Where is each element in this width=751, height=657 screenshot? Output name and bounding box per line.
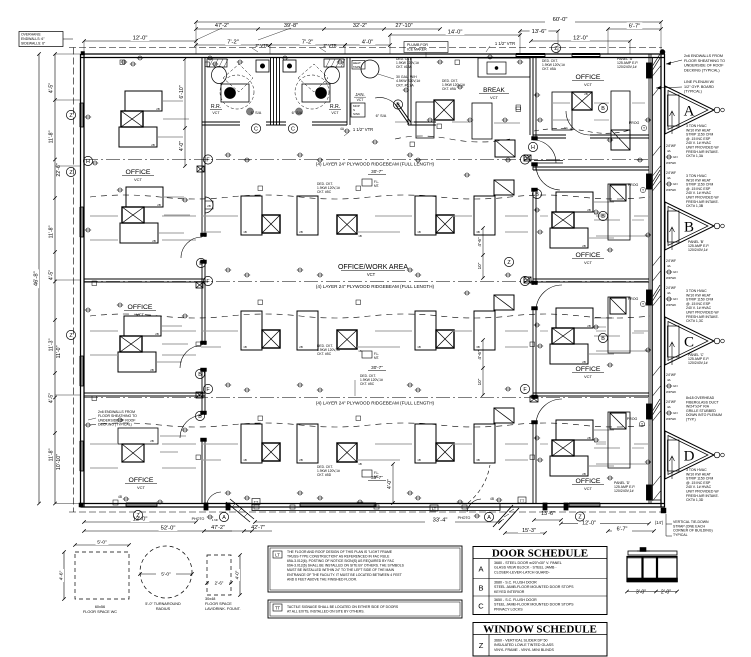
left entry door swing	[207, 492, 221, 503]
svg-text:T: T	[642, 302, 644, 306]
svg-text:AT ALL EXITS, INSTALLED ON SIT: AT ALL EXITS, INSTALLED ON SITE BY OTHER…	[287, 610, 364, 614]
wall office2-right / office3-right	[533, 278, 649, 280]
dimension tier 47'-2" 39'-8" 32'-2" 27'-10"	[196, 28, 440, 30]
svg-text:11'-8": 11'-8"	[49, 130, 55, 143]
hvac unit A triangle	[665, 86, 714, 134]
svg-text:SINK: SINK	[353, 112, 360, 116]
door tag B mid-left 1	[196, 258, 205, 267]
hvac unit D duct	[668, 440, 680, 471]
corner tie-down dots	[79, 503, 83, 507]
door jamb blocks right wall	[532, 137, 538, 141]
svg-text:WP/WK: WP/WK	[666, 188, 676, 192]
svg-text:4A: 4A	[667, 176, 671, 180]
svg-text:11'-8": 11'-8"	[49, 225, 55, 238]
interior dim 6'-10"	[184, 59, 186, 166]
svg-text:(TYP.): (TYP.)	[686, 418, 696, 422]
window tag Z left 2	[66, 167, 75, 176]
svg-text:3'-0": 3'-0"	[636, 590, 646, 596]
wc floor space dashed square	[75, 552, 129, 599]
svg-text:(TYPICAL): (TYPICAL)	[684, 90, 702, 94]
svg-text:H: H	[531, 145, 535, 151]
svg-text:5'-0": 5'-0"	[97, 540, 107, 546]
note box LT	[268, 546, 462, 592]
hvac unit C triangle	[665, 317, 714, 365]
svg-text:OFFICE: OFFICE	[129, 477, 154, 484]
right plenum wall	[648, 54, 650, 504]
svg-text:4A: 4A	[667, 378, 671, 382]
svg-text:TAPE: TAPE	[353, 65, 361, 69]
svg-text:32'-2": 32'-2"	[353, 23, 367, 29]
window left wall 2	[80, 207, 84, 237]
svg-text:A: A	[487, 515, 491, 521]
door tag B office4-right	[598, 333, 607, 342]
svg-text:52'-0": 52'-0"	[161, 526, 176, 532]
ridge junction boxes	[197, 166, 204, 172]
electrical symbols scattered	[122, 60, 126, 64]
restroom shared wet wall fixtures	[256, 60, 269, 72]
svg-text:4'-6": 4'-6"	[59, 570, 65, 580]
svg-text:24"WF: 24"WF	[666, 171, 676, 175]
hvac unit B wall hatch	[653, 170, 661, 182]
svg-text:C: C	[684, 335, 694, 351]
office-right row C desks	[556, 308, 593, 328]
svg-text:3680 - S.C. FLUSH DOOR: 3680 - S.C. FLUSH DOOR	[494, 581, 537, 585]
dimension 46'-8" left overall	[38, 54, 40, 504]
svg-text:11'-0": 11'-0"	[56, 345, 62, 358]
svg-text:4'-5": 4'-5"	[49, 270, 55, 280]
wall office1-right bottom	[533, 134, 566, 136]
workstation row D units	[241, 424, 262, 463]
svg-text:6'-7": 6'-7"	[629, 24, 641, 30]
dimension 12'-0" top left	[84, 40, 196, 42]
door arc office3-left	[180, 415, 202, 438]
svg-text:VCT: VCT	[584, 374, 593, 379]
svg-text:LT: LT	[432, 506, 437, 511]
svg-text:PROG: PROG	[628, 183, 639, 187]
svg-text:JAN.: JAN.	[355, 92, 365, 97]
office-right row B desks	[556, 192, 593, 212]
lav floor space dashed rect	[207, 555, 231, 595]
right entry ramp	[493, 505, 513, 527]
window top wall 1	[516, 53, 545, 57]
svg-text:120/240V,1#: 120/240V,1#	[617, 65, 637, 69]
svg-text:FLOOR SPACE WC: FLOOR SPACE WC	[83, 610, 117, 614]
note box TT	[268, 600, 462, 618]
hvac unit B triangle	[665, 202, 714, 250]
svg-text:CKT. #5C: CKT. #5C	[360, 382, 375, 386]
svg-text:6'-10": 6'-10"	[179, 85, 185, 98]
svg-text:47'-2": 47'-2"	[211, 525, 225, 531]
break counter with sink	[478, 58, 530, 77]
svg-text:10": 10"	[477, 378, 482, 385]
privacy screen dashed lines row C	[90, 314, 650, 318]
svg-text:24"WF: 24"WF	[666, 286, 676, 290]
svg-text:GFI: GFI	[673, 182, 678, 186]
door tag B office3-right	[598, 211, 607, 220]
svg-text:VINYL FRAME - VINYL MINI BLIND: VINYL FRAME - VINYL MINI BLINDS	[494, 648, 554, 652]
svg-text:2" VTR: 2" VTR	[255, 43, 268, 48]
door schedule table	[473, 547, 607, 615]
svg-text:LT: LT	[275, 553, 280, 558]
svg-text:CKT. #9A: CKT. #9A	[442, 87, 457, 91]
svg-text:1B: 1B	[417, 345, 421, 349]
svg-text:VCT: VCT	[490, 95, 499, 100]
wall office3-right / office4-right	[533, 392, 649, 394]
svg-text:3680 - STEEL DOOR w/20"x30" V.: 3680 - STEEL DOOR w/20"x30" V. PANEL	[494, 561, 562, 565]
corner dot top right	[660, 50, 665, 55]
svg-text:120/240V,1#: 120/240V,1#	[614, 489, 634, 493]
door tag C restroom left	[251, 124, 260, 133]
svg-text:GFI: GFI	[673, 270, 678, 274]
door tag F ridge right 3	[520, 384, 529, 393]
door tag F ridge right 2	[520, 276, 529, 285]
corridor sill office2-right	[534, 160, 563, 162]
svg-text:24"WF: 24"WF	[666, 259, 676, 263]
svg-text:4A: 4A	[667, 291, 671, 295]
door tag B janitor	[393, 100, 402, 109]
svg-text:VCT: VCT	[367, 272, 376, 277]
svg-text:12'-0": 12'-0"	[582, 521, 596, 527]
svg-text:4A: 4A	[667, 264, 671, 268]
window tag Z left 3	[66, 330, 75, 339]
door tag B mid-left 3	[195, 411, 204, 420]
svg-text:12'-0": 12'-0"	[133, 36, 148, 42]
ridgebeam centerline 3	[84, 397, 649, 399]
window elevation detail	[628, 551, 677, 555]
svg-text:CKT. #6,7A: CKT. #6,7A	[396, 83, 414, 87]
svg-text:60'-0": 60'-0"	[553, 17, 568, 23]
svg-text:1B: 1B	[358, 349, 362, 353]
svg-text:6" S/A: 6" S/A	[251, 111, 262, 115]
svg-text:WP/WK: WP/WK	[666, 390, 676, 394]
svg-text:B: B	[198, 414, 202, 420]
ridgebeam centerline 2	[84, 281, 649, 283]
svg-text:B: B	[396, 102, 400, 108]
svg-text:4B: 4B	[490, 497, 494, 501]
entry landing strip	[252, 504, 500, 511]
window bottom wall 1	[300, 503, 376, 507]
svg-text:3B: 3B	[476, 345, 480, 349]
dimension 6'-7" top right	[608, 28, 661, 30]
bottom entry door jambs	[204, 503, 208, 510]
interior dim 4'-6" right	[482, 228, 484, 278]
svg-text:2B: 2B	[584, 92, 588, 96]
svg-text:OFFICE: OFFICE	[126, 169, 151, 176]
svg-text:GFI: GFI	[673, 155, 678, 159]
svg-text:PHOTO: PHOTO	[192, 517, 205, 521]
svg-text:GFI: GFI	[673, 411, 678, 415]
svg-text:30'-7": 30'-7"	[371, 365, 383, 370]
svg-text:CKT. #5C: CKT. #5C	[317, 352, 332, 356]
dimension 13'-6" top	[520, 30, 558, 32]
door arc office3-right	[536, 285, 562, 310]
svg-text:PROG: PROG	[628, 297, 639, 301]
office-left row B desk	[126, 187, 163, 207]
svg-text:69A-3.012(6) SHALL BE INSTALLE: 69A-3.012(6) SHALL BE INSTALLED ON SITE …	[287, 564, 405, 568]
door arc office2-left	[180, 345, 202, 368]
svg-text:RADIUS: RADIUS	[156, 607, 171, 611]
svg-text:B: B	[684, 220, 694, 236]
svg-text:2'-6": 2'-6"	[215, 581, 224, 586]
svg-text:WP/WK: WP/WK	[666, 161, 676, 165]
svg-text:3650 - S.C. FLUSH DOOR: 3650 - S.C. FLUSH DOOR	[494, 598, 537, 602]
break room east wall	[529, 58, 531, 136]
svg-text:11'-8": 11'-8"	[49, 448, 55, 461]
svg-text:WP/WK: WP/WK	[666, 303, 676, 307]
overhang note box top left	[19, 32, 63, 47]
svg-text:SIDEWALLS: 6": SIDEWALLS: 6"	[21, 41, 46, 45]
svg-text:CLOSER-LEVER-LATCH GUARD-: CLOSER-LEVER-LATCH GUARD-	[494, 570, 550, 574]
window left wall 1	[80, 103, 84, 127]
svg-text:2B: 2B	[587, 208, 591, 212]
restroom south wall with door openings	[202, 121, 240, 123]
svg-text:VCT: VCT	[331, 111, 339, 115]
office-left row C desk	[124, 316, 161, 336]
xbox diag break	[495, 140, 515, 157]
svg-text:WP/WK: WP/WK	[666, 417, 676, 421]
roof overhang dashed outline	[69, 47, 662, 49]
svg-text:TACTILE SIGNAGE SHALL BE LOCAT: TACTILE SIGNAGE SHALL BE LOCATED ON EITH…	[287, 605, 399, 609]
hvac unit D wall hatch	[653, 399, 661, 411]
door tag C restroom right	[288, 124, 297, 133]
window schedule table	[473, 623, 607, 657]
door tag H break corridor	[528, 142, 537, 151]
restroom left fixtures	[207, 59, 227, 67]
svg-text:42'-7": 42'-7"	[251, 525, 265, 531]
svg-text:24"WF: 24"WF	[666, 144, 676, 148]
svg-text:BREAK: BREAK	[483, 87, 505, 94]
junction boxes scattered	[120, 60, 125, 65]
svg-text:2B: 2B	[299, 345, 303, 349]
svg-text:STEEL JAMB-FLOOR MOUNTED DOOR: STEEL JAMB-FLOOR MOUNTED DOOR STOPS	[494, 585, 574, 589]
dimension 6'-7" bottom right	[608, 530, 654, 532]
svg-text:VCT: VCT	[212, 111, 220, 115]
svg-text:DECKING (TYPICAL): DECKING (TYPICAL)	[98, 423, 132, 427]
svg-text:4'-6": 4'-6"	[477, 350, 482, 360]
svg-text:MT.: MT.	[374, 475, 379, 479]
right offices wall vertical	[532, 58, 534, 141]
svg-text:PROG: PROG	[627, 417, 638, 421]
svg-text:MUST BE INSTALLED WITHIN 24" T: MUST BE INSTALLED WITHIN 24" TO THE LEFT…	[287, 568, 395, 572]
svg-text:FLOOR SPACE: FLOOR SPACE	[205, 602, 232, 606]
hvac unit A wall hatch	[653, 54, 661, 66]
svg-text:2B: 2B	[150, 368, 154, 372]
svg-text:INSULATED LOW-E TINTED GLASS: INSULATED LOW-E TINTED GLASS	[494, 643, 554, 647]
hvac unit C duct	[668, 326, 680, 357]
svg-text:OVERHANG:: OVERHANG:	[21, 33, 41, 37]
svg-text:AND 6 FEET ABOVE THE FINISHED: AND 6 FEET ABOVE THE FINISHED FLOOR.	[287, 577, 357, 581]
svg-text:MT.: MT.	[374, 184, 379, 188]
svg-text:VCT: VCT	[584, 82, 593, 87]
svg-text:2B: 2B	[207, 204, 211, 208]
svg-text:VCT: VCT	[134, 177, 143, 182]
left dimension chain	[54, 54, 56, 504]
svg-text:120/240V,1#: 120/240V,1#	[688, 361, 708, 365]
svg-text:2B: 2B	[151, 143, 155, 147]
door tag F 1	[203, 155, 212, 164]
window tag Z right wall	[504, 257, 513, 266]
svg-text:2B: 2B	[157, 203, 161, 207]
svg-text:PLUMB FOR: PLUMB FOR	[407, 43, 428, 47]
svg-text:24"WF: 24"WF	[666, 400, 676, 404]
extension ticks left wall	[55, 53, 80, 55]
svg-text:5'-0" TURNAROUND: 5'-0" TURNAROUND	[145, 602, 181, 606]
svg-text:2" VTR: 2" VTR	[323, 43, 336, 48]
dimension 12'-0" bottom left	[84, 521, 196, 523]
svg-text:69A-3.012(6). POSTING OF NOTIC: 69A-3.012(6). POSTING OF NOTICE SIGN(S) …	[287, 559, 395, 563]
svg-text:27'-10": 27'-10"	[395, 23, 412, 29]
svg-text:2B: 2B	[582, 244, 586, 248]
svg-text:ENTRANCE OF THE FACILITY. IT M: ENTRANCE OF THE FACILITY. IT MUST BE LOC…	[287, 573, 402, 577]
svg-text:1B: 1B	[417, 458, 421, 462]
svg-text:22'-6": 22'-6"	[56, 163, 62, 176]
desk row A break area	[416, 102, 434, 138]
svg-text:B: B	[535, 192, 539, 198]
interior dim 4'-6" right lower	[482, 340, 484, 395]
svg-text:7'-2": 7'-2"	[302, 40, 314, 46]
svg-text:(4) LAYER 24" PLYWOOD RIDGEBEA: (4) LAYER 24" PLYWOOD RIDGEBEAM (FULL LE…	[316, 162, 435, 167]
right plenum wall stud hatches	[653, 66, 661, 76]
svg-text:ENDWALLS: 6": ENDWALLS: 6"	[21, 37, 45, 41]
svg-text:4'-6": 4'-6"	[477, 237, 482, 247]
svg-text:1 1/2" VTR: 1 1/2" VTR	[495, 41, 515, 46]
door arc office1-left	[181, 237, 202, 258]
svg-text:1 NF: 1 NF	[212, 518, 219, 522]
svg-text:15'-3": 15'-3"	[522, 528, 536, 534]
svg-text:60x56: 60x56	[95, 605, 105, 609]
svg-text:TYPICAL: TYPICAL	[673, 533, 688, 537]
window top wall 2	[572, 53, 600, 57]
left entry ramp	[226, 502, 250, 522]
svg-text:1B: 1B	[358, 462, 362, 466]
svg-text:C: C	[254, 126, 258, 132]
svg-text:LINE PLENUM W/: LINE PLENUM W/	[684, 80, 715, 84]
plumb for ice maker note	[404, 42, 448, 53]
workstation row C units	[241, 311, 262, 350]
svg-text:6'-7": 6'-7"	[617, 527, 628, 533]
wall office2-right top	[533, 166, 649, 168]
svg-text:H: H	[86, 159, 90, 165]
svg-text:2B: 2B	[587, 324, 591, 328]
svg-text:(14'): (14')	[655, 520, 664, 525]
svg-text:PRIVACY LOCKS: PRIVACY LOCKS	[494, 607, 523, 611]
svg-text:5A: 5A	[564, 126, 568, 130]
svg-text:11'-3": 11'-3"	[49, 338, 55, 351]
svg-text:CKT. #5C: CKT. #5C	[317, 190, 332, 194]
hvac unit D triangle	[665, 431, 714, 479]
svg-text:VCT: VCT	[584, 486, 593, 491]
svg-text:C: C	[478, 602, 484, 611]
svg-text:2B: 2B	[156, 107, 160, 111]
svg-text:TT: TT	[275, 606, 281, 611]
svg-text:CKT. #5D: CKT. #5D	[317, 473, 332, 477]
svg-text:MT.: MT.	[374, 356, 379, 360]
svg-text:4'-0": 4'-0"	[235, 570, 240, 579]
svg-text:B: B	[601, 106, 605, 112]
svg-text:30x48: 30x48	[205, 597, 215, 601]
svg-text:PHOTO: PHOTO	[458, 516, 471, 520]
svg-text:5'-0": 5'-0"	[161, 572, 171, 578]
door arc office2-right	[536, 166, 560, 190]
dimension 52'-0" bottom	[84, 530, 252, 532]
svg-text:(4) LAYER 24" PLYWOOD RIDGEBEA: (4) LAYER 24" PLYWOOD RIDGEBEAM (FULL LE…	[316, 284, 435, 289]
svg-text:4A: 4A	[667, 149, 671, 153]
svg-text:DOOR SCHEDULE: DOOR SCHEDULE	[492, 548, 588, 560]
door arc office4-right	[536, 399, 562, 424]
svg-text:CKT# 1,3B: CKT# 1,3B	[686, 204, 704, 208]
svg-text:10'-10": 10'-10"	[56, 454, 62, 470]
wall office2-left / office3-left	[84, 392, 205, 394]
right entry symbols	[518, 497, 526, 503]
svg-text:4'-0": 4'-0"	[387, 479, 393, 489]
svg-text:10": 10"	[477, 262, 482, 269]
svg-text:46'-8": 46'-8"	[34, 271, 40, 286]
svg-text:CKT. #13A: CKT. #13A	[396, 65, 413, 69]
left entry symbols	[252, 499, 260, 505]
fl mt box row D	[362, 470, 372, 477]
svg-text:1B: 1B	[243, 345, 247, 349]
svg-text:GFI: GFI	[673, 384, 678, 388]
svg-text:2B: 2B	[299, 230, 303, 234]
svg-text:THE FLOOR AND ROOF DESIGN OF T: THE FLOOR AND ROOF DESIGN OF THIS PLAN I…	[287, 550, 393, 554]
dimension 33'-4" bottom	[255, 521, 500, 523]
window detail dims	[627, 591, 677, 593]
svg-text:6" S/A: 6" S/A	[376, 114, 387, 118]
restroom block walls	[270, 58, 272, 126]
svg-text:VCT: VCT	[357, 98, 364, 102]
privacy screen dashed lines row D	[90, 423, 650, 427]
svg-text:4'-5": 4'-5"	[49, 393, 55, 403]
building outer walls	[81, 53, 666, 55]
door tag F 2	[203, 276, 212, 285]
svg-text:13'-6": 13'-6"	[532, 29, 547, 35]
svg-text:T: T	[643, 126, 645, 130]
svg-text:4'-5": 4'-5"	[49, 83, 55, 93]
svg-text:D: D	[684, 449, 695, 465]
turnaround dashed circle	[140, 546, 192, 598]
window tag Z bottom	[575, 512, 584, 521]
svg-text:33'-4": 33'-4"	[433, 518, 448, 524]
svg-text:4'-0": 4'-0"	[362, 40, 374, 46]
svg-text:2x6 ENDWALLS FROM: 2x6 ENDWALLS FROM	[684, 54, 723, 58]
door jamb blocks left wall	[201, 233, 207, 237]
svg-text:2B: 2B	[150, 439, 154, 443]
dimension 15'-3" bottom	[505, 532, 545, 534]
ridgebeam centerline 1	[84, 159, 649, 161]
fl mt box row B	[362, 179, 372, 186]
restroom right fixtures	[324, 59, 344, 67]
dimension 12'-0" top right	[531, 40, 630, 42]
svg-text:1/2" GYP. BOARD: 1/2" GYP. BOARD	[684, 85, 714, 89]
svg-text:12'-0": 12'-0"	[573, 36, 588, 42]
svg-text:B: B	[478, 584, 483, 593]
door tag H left wall	[83, 156, 92, 165]
desk row A office right	[552, 92, 572, 130]
svg-text:STEEL JAMB-FLOOR MOUNTED DOOR: STEEL JAMB-FLOOR MOUNTED DOOR STOPS	[494, 603, 574, 607]
svg-text:VCT: VCT	[136, 312, 145, 317]
svg-text:CKT# 1,3D: CKT# 1,3D	[686, 498, 704, 502]
svg-text:C: C	[291, 126, 295, 132]
svg-text:3660 - VERTICAL SLIDER DP 50: 3660 - VERTICAL SLIDER DP 50	[494, 639, 547, 643]
svg-text:T: T	[641, 422, 643, 426]
svg-text:2B: 2B	[582, 472, 586, 476]
door tag B mid-left 2	[195, 369, 204, 378]
wall bracket fixture	[205, 197, 213, 213]
svg-text:4B: 4B	[118, 495, 122, 499]
svg-text:13'-6": 13'-6"	[541, 511, 555, 517]
svg-text:3B: 3B	[476, 458, 480, 462]
extension lines top	[195, 22, 197, 54]
